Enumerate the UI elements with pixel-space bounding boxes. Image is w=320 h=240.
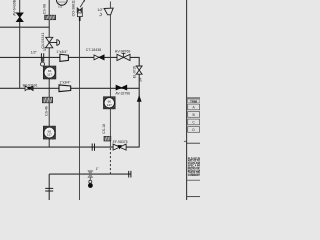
valve EF-98375 <box>113 144 126 150</box>
wire: vertical line x=110.4 <box>109 15 111 147</box>
squiggle mark <box>99 13 101 16</box>
wire: vertical line x=19.7 <box>19 0 21 88</box>
svg-text:CS-18: CS-18 <box>102 124 106 134</box>
svg-text:BV-93191: BV-93191 <box>23 84 38 88</box>
flow arrow up on x=139 <box>137 95 142 102</box>
svg-text:117: 117 <box>47 133 52 137</box>
svg-text:AV-32796: AV-32796 <box>115 91 130 95</box>
wire: horizontal line y=147 <box>0 146 140 148</box>
valve EL-0728 (vertical open) <box>136 66 142 74</box>
instrument bubble at top edge <box>56 0 67 8</box>
wire: vertical line x=79.5 <box>79 21 81 201</box>
spectacle blind on y=57 <box>41 53 45 66</box>
valve AV-6430B (filled, vertical) <box>16 13 23 22</box>
drain valve with ball on y=174 <box>88 171 93 188</box>
control valve CV-04341 with actuator <box>46 37 60 48</box>
wire: horizontal header line y=27 <box>0 26 50 28</box>
reducer on y=57 <box>60 54 69 61</box>
title block rules <box>184 140 187 142</box>
instrument square S2 <box>44 126 56 139</box>
svg-text:1"x3/4": 1"x3/4" <box>59 81 71 85</box>
funnel drain on x=110 <box>104 8 113 15</box>
svg-text:HV-98769: HV-98769 <box>115 49 131 53</box>
wire: main horizontal process line y=57 <box>0 56 140 58</box>
svg-text:CV-04341: CV-04341 <box>41 33 45 49</box>
spectacle blind on y=147 <box>92 144 94 151</box>
hatched box on x=49 (y=100) <box>42 97 52 103</box>
valve HV-98769 <box>117 53 130 60</box>
svg-text:102: 102 <box>58 4 63 8</box>
svg-text:1"x3/4": 1"x3/4" <box>56 50 68 54</box>
wire: vertical line x=49.2 lower drop leg <box>48 174 50 200</box>
svg-text:AV-6430B: AV-6430B <box>13 0 17 16</box>
svg-text:EL-0728: EL-0728 <box>132 66 136 79</box>
revision table <box>187 98 200 132</box>
valve AV-32796 (filled) <box>116 85 127 90</box>
wire: horizontal line y=88 <box>0 87 140 89</box>
wire: vertical line x=49.2 upper <box>48 0 50 147</box>
wire: dashed line x=110.4 lower <box>109 148 111 174</box>
control valve CO-38811 assembly <box>77 0 85 21</box>
svg-text:CS-08: CS-08 <box>43 4 47 14</box>
svg-text:1/2": 1/2" <box>31 51 38 55</box>
svg-text:CT-18438: CT-18438 <box>86 48 101 52</box>
wire: horizontal line y=174 <box>49 173 131 175</box>
wire: vertical line x=139.2 <box>138 57 140 147</box>
hatched box on x=110 (y=138) <box>104 136 111 141</box>
wire: vertical line x=110.4 top stub <box>109 2 111 9</box>
svg-text:3/4": 3/4" <box>139 76 143 82</box>
reducer on y=88 <box>59 85 71 92</box>
svg-text:EF-98375: EF-98375 <box>113 140 128 144</box>
inline silencer (hatched box) on x=49 <box>45 15 56 20</box>
svg-text:COMMENTS: COMMENTS <box>188 175 200 177</box>
svg-text:117: 117 <box>47 73 52 77</box>
spectacle blind on y=174 <box>129 171 131 178</box>
spectacle blind on x=49 leg <box>45 188 53 191</box>
notes text block <box>188 157 210 177</box>
svg-text:147: 147 <box>107 103 112 107</box>
svg-text:CS-46: CS-46 <box>45 106 49 116</box>
instrument square S1 (blower) <box>44 66 56 79</box>
instrument square S3 <box>104 97 115 109</box>
valve CT-18438 (right half filled) <box>94 55 104 60</box>
border line x=186.6 <box>186 0 188 200</box>
svg-text:TRIM: TRIM <box>190 99 198 103</box>
svg-text:CO-38811: CO-38811 <box>72 0 76 16</box>
valve BV-93191 (ball) <box>25 86 33 91</box>
svg-text:1/2": 1/2" <box>97 8 104 12</box>
